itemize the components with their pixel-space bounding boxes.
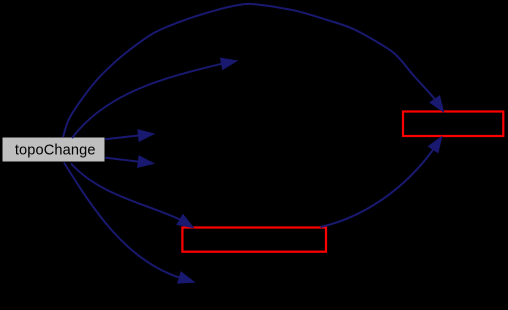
node lower red box (highlighted, label black-on-black) <box>182 228 326 252</box>
edge topoChange -> hidden node D (bottom arrow) <box>64 163 194 284</box>
edge lower red node -> upper red node <box>321 137 442 227</box>
svg-text:topoChange: topoChange <box>15 142 96 158</box>
edge topoChange -> hidden node C (short arrow lower) <box>105 156 154 168</box>
edge topoChange -> upper red node (top arc) <box>63 4 444 137</box>
edge topoChange -> hidden node A (upper-mid arrow) <box>72 58 237 138</box>
edge topoChange -> hidden node B (short arrow upper) <box>105 130 154 142</box>
edge topoChange -> lower red node <box>71 164 193 228</box>
node topoChange (current node, grey filled) <box>3 138 105 162</box>
node upper red box (highlighted, label black-on-black) <box>403 112 503 137</box>
